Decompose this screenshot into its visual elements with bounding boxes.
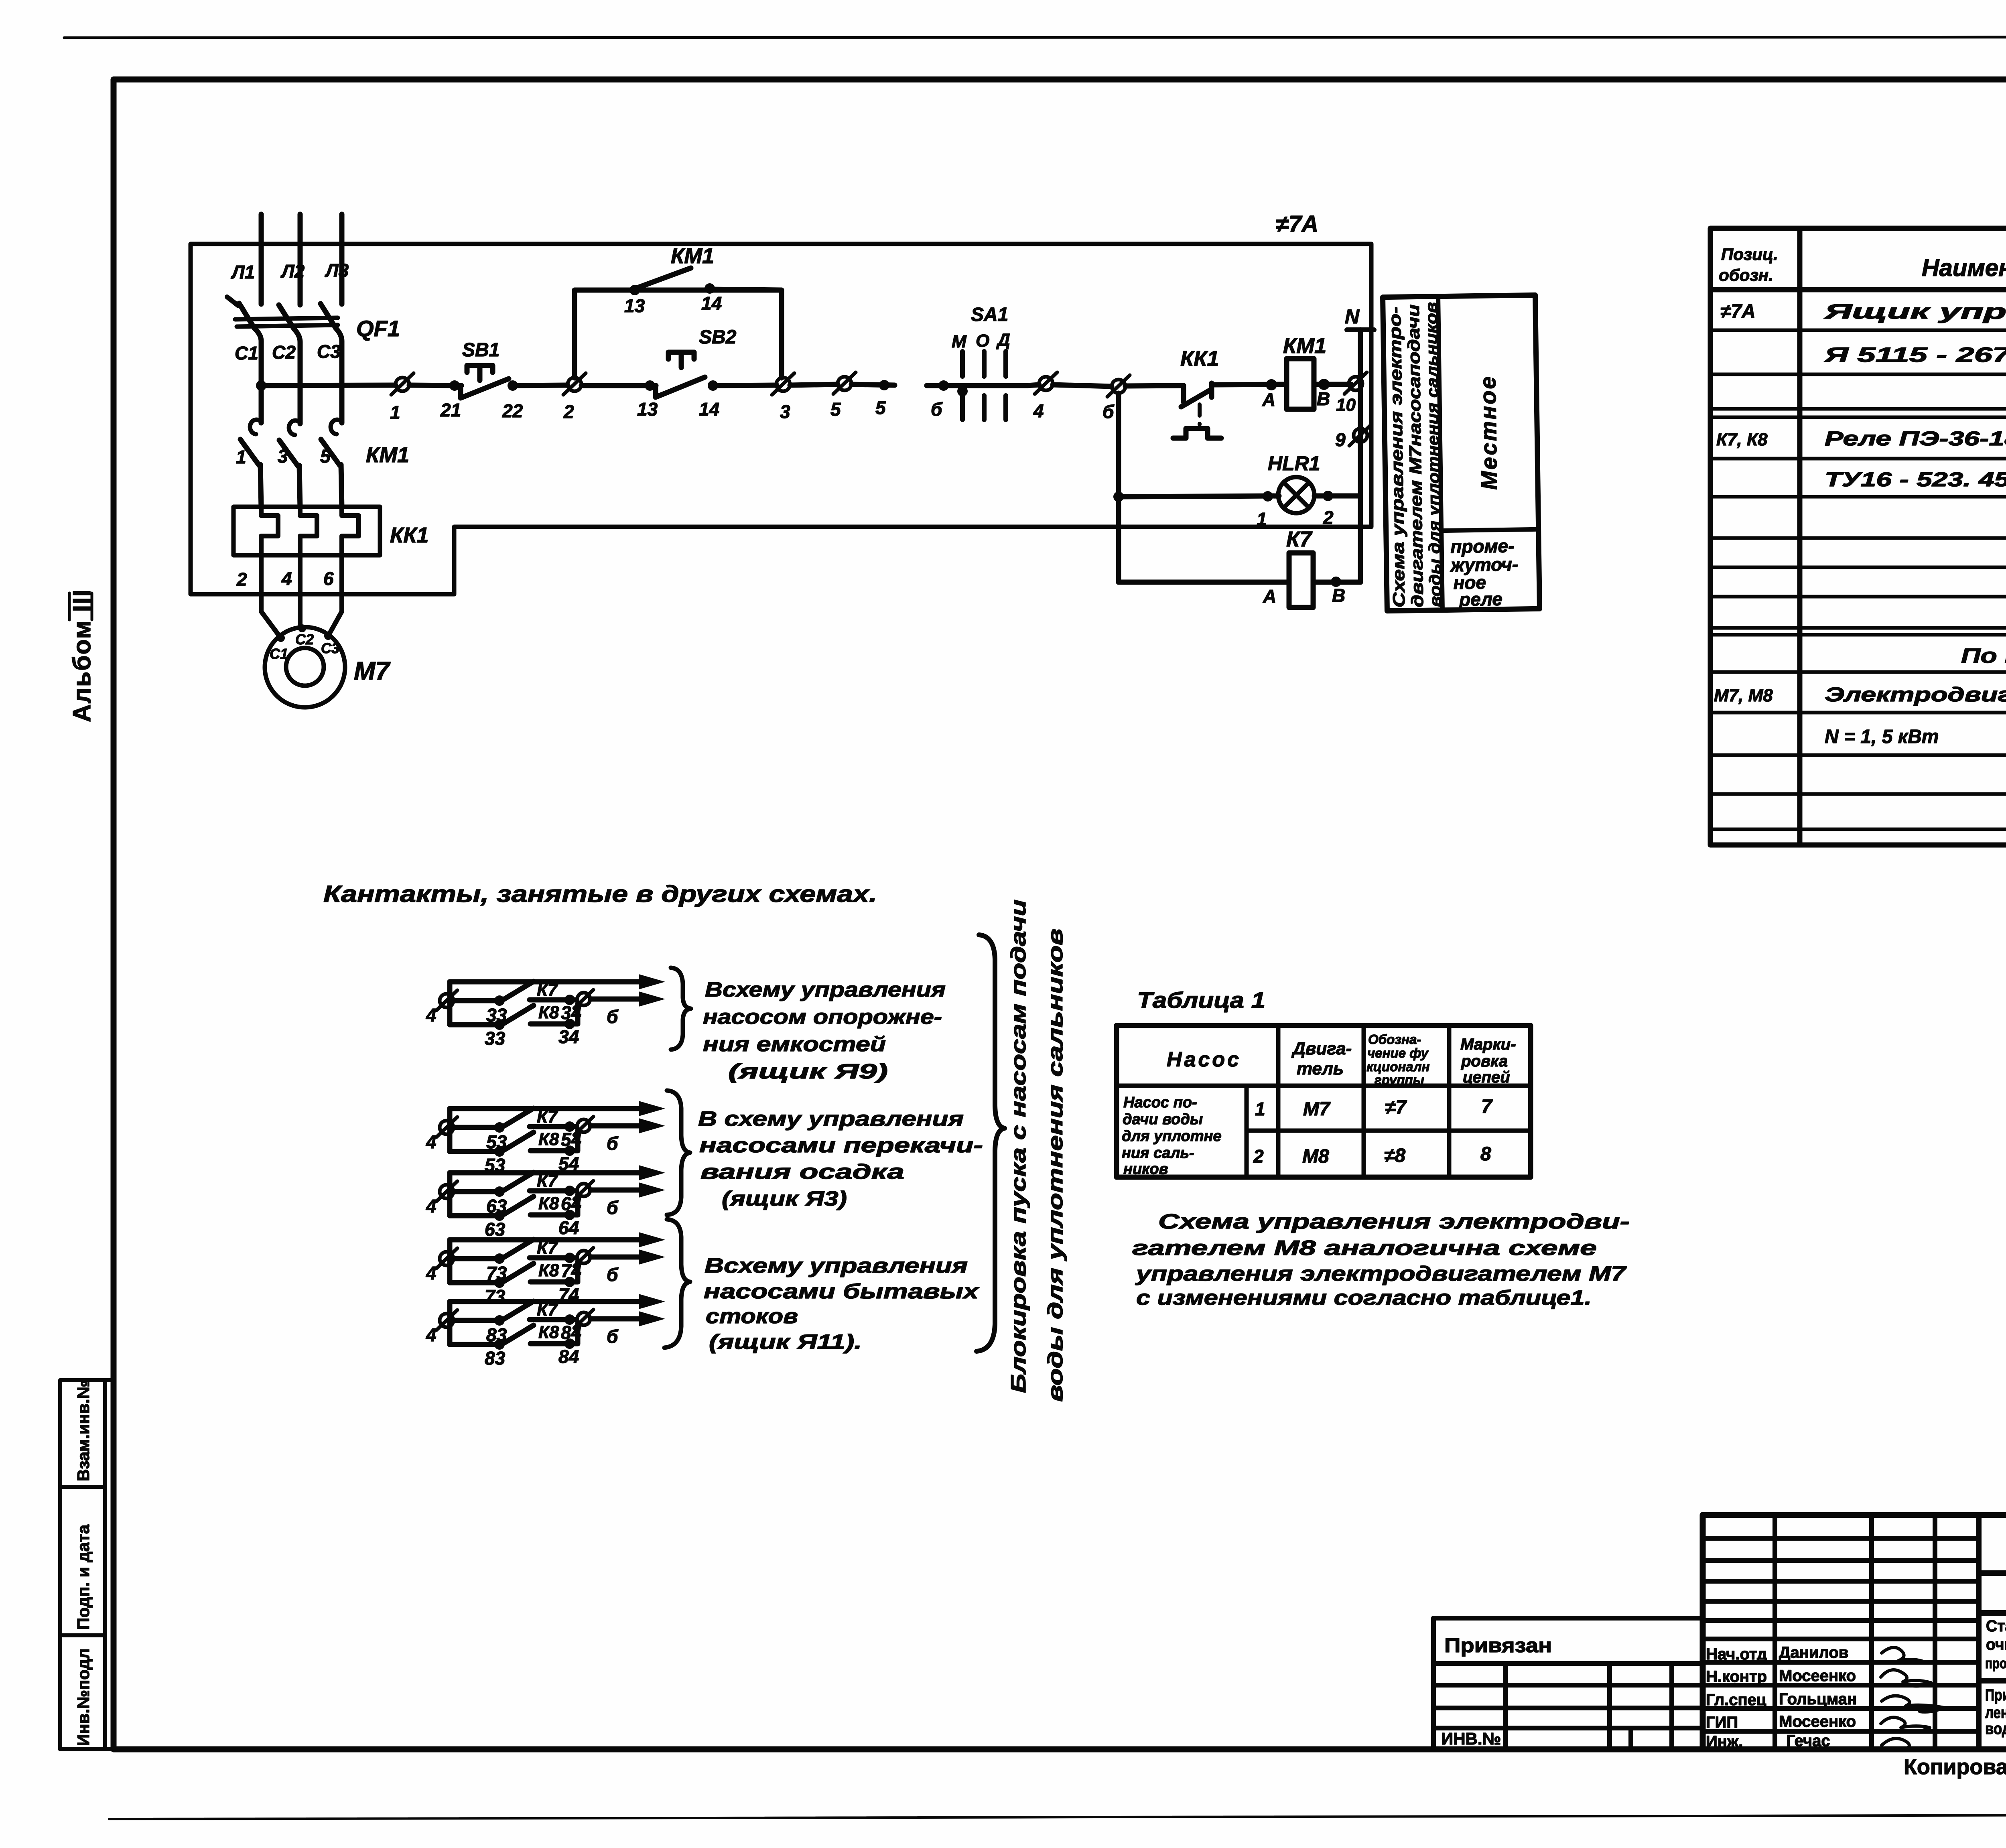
left attachment block: [1433, 1618, 1703, 1749]
svg-text:К7: К7: [537, 1107, 558, 1127]
wire: rail terminal 2 to node 13: [581, 383, 656, 388]
svg-text:2: 2: [236, 569, 247, 590]
svg-text:2: 2: [1253, 1146, 1264, 1167]
svg-text:М7: М7: [354, 656, 391, 685]
svg-text:б: б: [607, 1006, 619, 1027]
wire top arrow g4: [450, 1237, 642, 1243]
node 22: [508, 380, 518, 391]
svg-text:Двига-: Двига-: [1291, 1039, 1352, 1058]
svg-text:4: 4: [426, 1263, 437, 1283]
wire: control rail from QF1 junction to terminal 1: [261, 385, 396, 386]
svg-text:4: 4: [426, 1005, 437, 1026]
svg-text:Обозна-: Обозна-: [1368, 1032, 1421, 1047]
phase line Л1 stub: [259, 214, 264, 304]
svg-text:К8: К8: [538, 1261, 559, 1280]
wire: K7 row left: [1119, 580, 1289, 585]
svg-text:с изменениями согласно табли: с изменениями согласно таблице1.: [1136, 1286, 1592, 1310]
svg-text:воды для уплотнения сальников: воды для уплотнения сальников: [1044, 928, 1067, 1402]
svg-text:54: 54: [561, 1129, 581, 1150]
svg-text:Марки-: Марки-: [1460, 1036, 1516, 1053]
wire: node 5 gap to node б SA1: [927, 383, 1027, 388]
svg-text:К8: К8: [538, 1129, 559, 1149]
svg-text:83: 83: [485, 1348, 506, 1369]
svg-text:Реле ПЭ-36-180У3, 220В, 50Г: Реле ПЭ-36-180У3, 220В, 50Гц: [1825, 427, 2006, 450]
svg-text:ровка: ровка: [1461, 1052, 1508, 1070]
info box caption line 2: [1404, 304, 1427, 607]
svg-text:К7, К8: К7, К8: [1716, 430, 1768, 449]
vertical note line 2: воды для уплотнения: [1044, 928, 1067, 1402]
svg-text:5: 5: [830, 399, 841, 420]
svg-text:Блокировка пуска с насосам под: Блокировка пуска с насосам подачи: [1007, 900, 1030, 1393]
svg-text:Нач.отд: Нач.отд: [1706, 1645, 1767, 1663]
KK1 heater element pole 2: [300, 507, 317, 555]
svg-text:А: А: [1263, 586, 1276, 607]
contactor KM1 pole 1 fixed contact: [250, 420, 261, 434]
wire: KK1 contact to node А: [1212, 384, 1286, 385]
motor lead 1: [261, 555, 281, 638]
svg-text:Наименование: Наименование: [1922, 254, 2006, 281]
terminal 1: [391, 373, 414, 395]
wire top arrow g2: [450, 1106, 642, 1111]
svg-text:14: 14: [699, 399, 719, 420]
node on SA1 М: [957, 386, 968, 396]
svg-text:А: А: [1262, 389, 1275, 410]
svg-text:К8: К8: [538, 1194, 559, 1213]
svg-text:цепей: цепей: [1463, 1068, 1510, 1086]
node б: [938, 380, 949, 391]
brace group 3: [664, 1219, 690, 1348]
album label vertical: Альбом III: [68, 589, 96, 722]
terminal 6 g1: [577, 993, 590, 1005]
wire: coil to terminal 10: [1314, 382, 1351, 387]
sheet outer top edge line: [64, 37, 2006, 38]
svg-text:К7: К7: [1286, 527, 1313, 551]
svg-text:В: В: [1332, 585, 1345, 606]
terminal 5: [833, 372, 856, 394]
wire bus g3: [447, 1173, 453, 1216]
svg-text:С2: С2: [295, 631, 314, 648]
svg-text:Принципиальная схема управ-: Принципиальная схема управ-: [1985, 1686, 2006, 1704]
svg-text:очистки сточных вод: очистки сточных вод: [1986, 1636, 2006, 1653]
node А: [1266, 379, 1277, 390]
terminal 6 g3: [577, 1184, 590, 1196]
svg-text:М8: М8: [1302, 1146, 1329, 1167]
info box (Местное / промежуточное реле): [1383, 295, 1540, 611]
svg-text:Гл.спец: Гл.спец: [1706, 1691, 1766, 1709]
pushbutton SB1 actuator: [467, 366, 493, 380]
wire: lamp branch vertical from terminal б2: [1116, 393, 1121, 582]
contact K7 g5: [453, 1318, 501, 1323]
svg-text:Гольцман: Гольцман: [1779, 1690, 1857, 1708]
svg-text:3: 3: [780, 401, 790, 422]
strip label Инв.№подл.: [74, 1648, 93, 1746]
svg-text:М7, М8: М7, М8: [1714, 686, 1773, 705]
svg-text:Данилов: Данилов: [1779, 1644, 1848, 1661]
terminal 9: [1349, 424, 1372, 446]
svg-text:N = 1, 5 кВт: N = 1, 5 кВт: [1825, 726, 1939, 747]
node В: [1318, 379, 1330, 390]
svg-text:В: В: [1317, 388, 1330, 409]
svg-text:64: 64: [561, 1193, 581, 1214]
wire mid arrow g4: [591, 1255, 642, 1260]
node 5: [879, 380, 889, 390]
svg-text:производительностью 100 м³/сут: производительностью 100 м³/сут.: [1985, 1655, 2006, 1671]
contact K8 g3: [450, 1213, 501, 1218]
wire mid arrow g1: [591, 997, 642, 1002]
motor terminal node C2: [298, 624, 306, 632]
svg-text:Л3: Л3: [325, 260, 349, 281]
svg-text:4: 4: [1033, 400, 1044, 421]
svg-text:10: 10: [1336, 395, 1356, 415]
svg-text:22: 22: [502, 400, 523, 421]
wire top arrow g5: [450, 1299, 642, 1304]
svg-text:Электродвигатель 4АХ80В4: Электродвигатель 4АХ80В4: [1825, 683, 2006, 706]
vertical note line 1: Блокировка пуска: [1007, 900, 1030, 1393]
KM1 pole 2 blade: [279, 440, 298, 466]
svg-text:74: 74: [561, 1260, 581, 1281]
svg-text:Л2: Л2: [280, 261, 305, 282]
phase line Л2 stub: [298, 214, 303, 305]
KK1 contact actuator dashes: [1198, 404, 1202, 424]
svg-text:Подп. и дата: Подп. и дата: [74, 1524, 93, 1630]
contact group K7/K8 63-64: [426, 1165, 665, 1240]
motor M7 body: [265, 627, 345, 707]
info box caption line 1: [1385, 307, 1408, 608]
svg-text:М: М: [952, 332, 967, 351]
svg-text:Инж.: Инж.: [1706, 1733, 1743, 1751]
terminal 4 g5: [440, 1314, 453, 1327]
wire: KM1 bypass branch up and across: [575, 290, 782, 378]
svg-text:Д: Д: [996, 330, 1010, 350]
svg-text:С3: С3: [321, 640, 339, 656]
terminal 4 g3: [440, 1185, 453, 1198]
svg-text:КМ1: КМ1: [671, 244, 714, 268]
svg-text:2: 2: [1323, 507, 1334, 528]
svg-text:(ящик Я3): (ящик Я3): [722, 1187, 847, 1210]
wire: terminal 4 to terminal б2: [1053, 385, 1112, 386]
wire: node 14 to corner: [710, 289, 782, 290]
node K7 right: [1331, 577, 1341, 587]
contactor KM1 pole 2 fixed contact: [289, 420, 300, 435]
svg-text:КК1: КК1: [1180, 347, 1219, 371]
contact K7 g3: [453, 1189, 501, 1194]
svg-text:Мосеенко: Мосеенко: [1779, 1713, 1856, 1730]
svg-text:4: 4: [426, 1196, 437, 1216]
terminal 4 g4: [440, 1252, 453, 1265]
thermal relay KK1 heater box: [233, 507, 380, 555]
wire: lamp row right segment: [1314, 493, 1360, 499]
node 21: [449, 380, 460, 391]
switch SA1 dashed contacts М О Д: [962, 351, 1006, 420]
svg-text:К7: К7: [537, 1300, 558, 1320]
contact K7 g2: [453, 1125, 501, 1130]
svg-text:К7: К7: [537, 980, 558, 1000]
svg-text:3: 3: [278, 446, 288, 467]
svg-text:воды для уплотнения сальников: воды для уплотнения сальников: [1423, 302, 1445, 607]
specification table grid: [1710, 228, 2006, 845]
QF1 pole 3 blade: [321, 304, 336, 328]
svg-text:б: б: [1102, 401, 1115, 422]
svg-text:SB1: SB1: [462, 339, 499, 361]
svg-text:SA1: SA1: [971, 304, 1008, 325]
big brace all groups: [977, 935, 1005, 1351]
QF1 pole 1 blade: [239, 303, 254, 328]
node: junction on phase 1: [256, 380, 266, 391]
terminal б2: [1107, 375, 1130, 397]
svg-text:5: 5: [320, 446, 331, 467]
svg-text:ния саль-: ния саль-: [1122, 1145, 1194, 1162]
KK1 thermal release symbol: [1173, 428, 1221, 438]
contact K8 g5: [450, 1342, 501, 1347]
QF1 pole 2 blade: [279, 305, 294, 329]
neutral N bar: [1347, 327, 1374, 332]
contact K8 g2: [450, 1149, 501, 1154]
svg-text:Гечас: Гечас: [1786, 1732, 1830, 1750]
strip label Взам.инв.№: [74, 1380, 93, 1481]
contact K8 g4: [450, 1280, 501, 1285]
svg-text:Таблица 1: Таблица 1: [1137, 987, 1265, 1013]
svg-text:N: N: [1345, 305, 1360, 328]
wire: terminal 3 to terminal 5: [790, 384, 838, 385]
terminal 6 g2: [577, 1119, 590, 1132]
svg-text:ИНВ.№: ИНВ.№: [1441, 1729, 1501, 1748]
contact group K7/K8 33-34: [426, 974, 665, 1049]
svg-text:К8: К8: [538, 1003, 559, 1022]
wire: terminal 5 to node 5: [851, 384, 895, 385]
svg-text:5: 5: [875, 397, 886, 418]
terminal 3: [772, 373, 794, 395]
svg-text:Позиц.: Позиц.: [1721, 245, 1778, 264]
svg-text:стоков: стоков: [706, 1305, 798, 1328]
svg-text:14: 14: [701, 293, 722, 314]
contactor KM1 pole 3 fixed contact: [331, 420, 342, 434]
pushbutton SB2 actuator: [668, 352, 694, 368]
svg-text:КМ1: КМ1: [366, 443, 409, 467]
svg-text:воды для уплотнения: воды для уплотнения: [1985, 1720, 2006, 1738]
svg-text:9: 9: [1335, 429, 1346, 450]
svg-text:Насос по-: Насос по-: [1123, 1094, 1197, 1111]
contact K8 g1: [450, 1022, 501, 1028]
svg-text:реле: реле: [1458, 589, 1503, 610]
QF1 pole 1 lower lead: [254, 328, 261, 423]
QF1 pole 1 hook: [227, 297, 238, 306]
QF1 pole 3 lower lead: [336, 328, 342, 423]
svg-text:4: 4: [281, 568, 292, 589]
wire: terminal 1 to node 21: [409, 385, 461, 386]
motor lead 3: [328, 555, 342, 636]
svg-text:ния емкостей: ния емкостей: [703, 1033, 886, 1056]
svg-text:б: б: [607, 1133, 619, 1154]
wire mid arrow g2: [591, 1123, 642, 1129]
svg-text:Привязан: Привязан: [1444, 1634, 1552, 1657]
KM1 pole 3 blade: [321, 439, 340, 465]
svg-text:кционалн: кционалн: [1366, 1059, 1430, 1074]
contact K7 g1: [453, 998, 501, 1003]
terminal 6 g4: [577, 1251, 590, 1263]
svg-text:насосом опорожне-: насосом опорожне-: [703, 1005, 942, 1029]
svg-text:Насос: Насос: [1167, 1048, 1241, 1071]
svg-text:Кантакты, занятые в других схе: Кантакты, занятые в других схемах.: [323, 881, 877, 907]
info box cell Местное: [1475, 375, 1502, 490]
svg-text:1: 1: [1255, 1099, 1265, 1119]
svg-text:ников: ников: [1123, 1161, 1168, 1178]
svg-text:≠7А: ≠7А: [1720, 301, 1756, 322]
contact K7 g4: [453, 1256, 501, 1261]
svg-text:Н.контр: Н.контр: [1706, 1668, 1767, 1686]
svg-text:обозн.: обозн.: [1719, 266, 1773, 284]
terminal 2: [563, 373, 586, 395]
KM1 pole 3 lower lead: [341, 465, 342, 508]
brace group 2: [667, 1091, 690, 1215]
signature squiggles: [1881, 1647, 1944, 1750]
wire top arrow g3: [450, 1170, 642, 1176]
brace group 1: [671, 968, 691, 1050]
KK1 heater element pole 3: [342, 507, 359, 555]
svg-text:С1: С1: [235, 343, 258, 364]
contactor coil KM1: [1287, 359, 1314, 409]
terminal 6 g5: [577, 1312, 590, 1325]
svg-text:чение фу: чение фу: [1367, 1046, 1429, 1060]
motor M7 inner circle: [286, 648, 324, 686]
svg-text:управления электродвигателем: управления электродвигателем М7: [1135, 1262, 1626, 1285]
svg-text:С3: С3: [317, 341, 341, 362]
contact group K7/K8 53-54: [426, 1101, 665, 1176]
node 2 lamp: [1323, 491, 1333, 501]
table 1 grid: [1117, 1026, 1531, 1177]
wire: lamp row left segment: [1119, 496, 1279, 497]
wire mid arrow g5: [591, 1316, 642, 1322]
svg-text:(ящик Я9): (ящик Я9): [728, 1060, 888, 1083]
wire: node 22 to terminal 2: [513, 385, 568, 386]
svg-text:ТУ16 - 523. 457- 80: ТУ16 - 523. 457- 80: [1825, 468, 2006, 491]
svg-text:тель: тель: [1297, 1059, 1344, 1078]
svg-text:6: 6: [323, 568, 334, 589]
wire bus g5: [447, 1302, 453, 1344]
svg-text:для уплотне: для уплотне: [1122, 1128, 1222, 1145]
svg-text:Всхему управления: Всхему управления: [705, 1254, 968, 1277]
phase line Л3 stub: [339, 214, 345, 304]
svg-text:Местное: Местное: [1475, 375, 1502, 490]
SB2 make contact blade: [650, 377, 705, 397]
svg-text:84: 84: [561, 1322, 581, 1343]
wire bus g1: [447, 982, 453, 1025]
svg-text:Мосеенко: Мосеенко: [1779, 1667, 1856, 1685]
svg-text:насосами бытавых: насосами бытавых: [704, 1280, 980, 1303]
svg-text:33: 33: [486, 1005, 507, 1026]
KM1 pole 1 lower lead: [260, 465, 261, 508]
node 1 lamp: [1263, 491, 1273, 502]
svg-text:13: 13: [637, 399, 658, 420]
svg-text:21: 21: [440, 400, 461, 420]
wire bus g2: [447, 1109, 453, 1151]
contact group K7/K8 83-84: [426, 1294, 665, 1369]
svg-text:С1: С1: [270, 646, 288, 662]
svg-text:34: 34: [558, 1026, 579, 1047]
terminal 4 g2: [440, 1121, 453, 1134]
svg-text:насосами перекачи-: насосами перекачи-: [699, 1134, 983, 1157]
svg-text:QF1: QF1: [356, 316, 400, 341]
terminal 4 g1: [440, 994, 453, 1007]
svg-text:б: б: [607, 1326, 619, 1347]
left margin strip cells: [60, 1380, 114, 1749]
QF1 pole 2 lower lead: [294, 329, 300, 424]
svg-text:84: 84: [558, 1346, 579, 1367]
svg-text:13: 13: [624, 295, 645, 316]
svg-text:С2: С2: [272, 342, 296, 363]
svg-text:К8: К8: [538, 1322, 559, 1342]
svg-text:HLR1: HLR1: [1268, 452, 1320, 475]
wire: N line vertical: [1358, 330, 1363, 582]
svg-text:М7: М7: [1303, 1099, 1331, 1120]
thermal contact KK1 (NC): [1181, 383, 1212, 407]
svg-text:73: 73: [486, 1263, 507, 1283]
svg-text:1: 1: [390, 402, 400, 423]
svg-text:Л1: Л1: [231, 262, 255, 282]
sheet outer bottom edge line: [109, 1814, 2006, 1819]
svg-text:63: 63: [486, 1196, 507, 1216]
KK1 heater element pole 1: [261, 507, 278, 555]
wire mid arrow g3: [591, 1188, 642, 1193]
svg-text:В схему управления: В схему управления: [698, 1107, 964, 1131]
svg-text:ГИП: ГИП: [1706, 1714, 1738, 1731]
svg-text:дачи воды: дачи воды: [1123, 1111, 1203, 1128]
motor terminal node C3: [324, 632, 332, 640]
svg-text:Станция биологической: Станция биологической: [1986, 1617, 2006, 1635]
wire: node 14 to terminal 3: [713, 385, 777, 386]
node 13 rail: [645, 380, 655, 391]
svg-text:4: 4: [426, 1324, 437, 1345]
wire: SA1 to terminal 4: [1027, 385, 1039, 386]
svg-text:64: 64: [558, 1217, 579, 1238]
svg-text:гателем М8 аналогична схеме: гателем М8 аналогична схеме: [1132, 1237, 1597, 1260]
info box caption line 3: [1423, 302, 1445, 607]
KM1 pole 2 lower lead: [299, 465, 300, 508]
svg-text:33: 33: [485, 1028, 506, 1049]
svg-text:Всхему управления: Всхему управления: [705, 978, 946, 1001]
svg-text:8: 8: [1480, 1143, 1491, 1165]
svg-text:7: 7: [1481, 1096, 1493, 1117]
svg-text:вания осадка: вания осадка: [700, 1160, 904, 1184]
motor lead 2: [298, 555, 303, 628]
svg-text:≠7: ≠7: [1385, 1097, 1407, 1118]
node lamp left: [1113, 491, 1124, 502]
svg-text:группы: группы: [1375, 1072, 1424, 1087]
svg-text:КМ1: КМ1: [1283, 334, 1326, 358]
node 13 upper: [629, 285, 640, 295]
terminal 4: [1035, 372, 1057, 394]
svg-text:ления насосами подачи: ления насосами подачи: [1985, 1704, 2006, 1722]
circuit breaker QF1 linkage bar: [235, 318, 338, 319]
contact group K7/K8 73-74: [426, 1232, 665, 1307]
svg-text:4: 4: [426, 1131, 437, 1152]
svg-text:2: 2: [563, 401, 574, 422]
svg-text:К7: К7: [537, 1238, 558, 1258]
svg-text:83: 83: [486, 1324, 507, 1345]
svg-text:(ящик Я11).: (ящик Я11).: [709, 1330, 862, 1354]
wire top arrow g1: [450, 979, 642, 985]
svg-text:≠7А: ≠7А: [1276, 211, 1318, 237]
title block main outline: [1433, 1515, 2006, 1749]
wire bus g4: [447, 1240, 453, 1283]
motor terminal node C1: [277, 634, 285, 642]
middle signature grid: [1773, 1515, 1777, 1749]
svg-text:К7: К7: [537, 1171, 558, 1191]
svg-text:≠8: ≠8: [1384, 1145, 1405, 1166]
svg-text:б: б: [607, 1264, 619, 1285]
intermediate relay coil K7: [1289, 553, 1313, 607]
indicator lamp HLR1: [1278, 477, 1314, 513]
svg-text:Инв.№подл: Инв.№подл: [74, 1648, 93, 1746]
